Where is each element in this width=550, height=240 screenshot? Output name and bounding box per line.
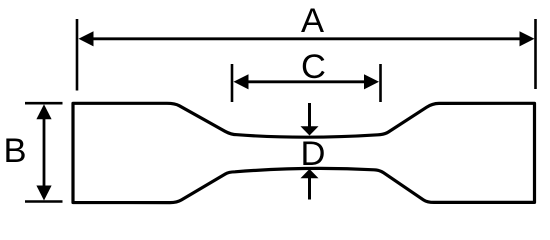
dimension D lower arrowhead <box>301 169 319 178</box>
dimension C extension line right <box>379 64 382 102</box>
dimension C arrowhead left <box>234 74 249 89</box>
dimension B line <box>43 112 46 193</box>
dimension B arrowhead up <box>36 104 51 119</box>
dimension C extension line left <box>231 64 234 102</box>
svg-text:B: B <box>3 132 26 170</box>
dimension A arrowhead right <box>520 31 535 46</box>
dimension C arrowhead right <box>364 74 379 89</box>
dimension B arrowhead down <box>36 186 51 201</box>
dimension A line <box>88 37 525 40</box>
svg-text:A: A <box>301 2 324 40</box>
dimension C line <box>242 80 370 83</box>
dimension B top tick <box>25 102 63 105</box>
svg-text:D: D <box>301 135 326 173</box>
dimension D upper line <box>308 103 311 127</box>
dimension D upper arrowhead <box>301 126 319 135</box>
dimension A arrowhead left <box>79 31 94 46</box>
specimen outline (dogbone) <box>73 103 535 202</box>
dimension D lower line <box>308 178 311 200</box>
dimension A extension line left <box>76 19 79 91</box>
dimension A extension line right <box>534 19 537 89</box>
dimension B bottom tick <box>25 200 63 203</box>
svg-text:C: C <box>301 48 326 86</box>
